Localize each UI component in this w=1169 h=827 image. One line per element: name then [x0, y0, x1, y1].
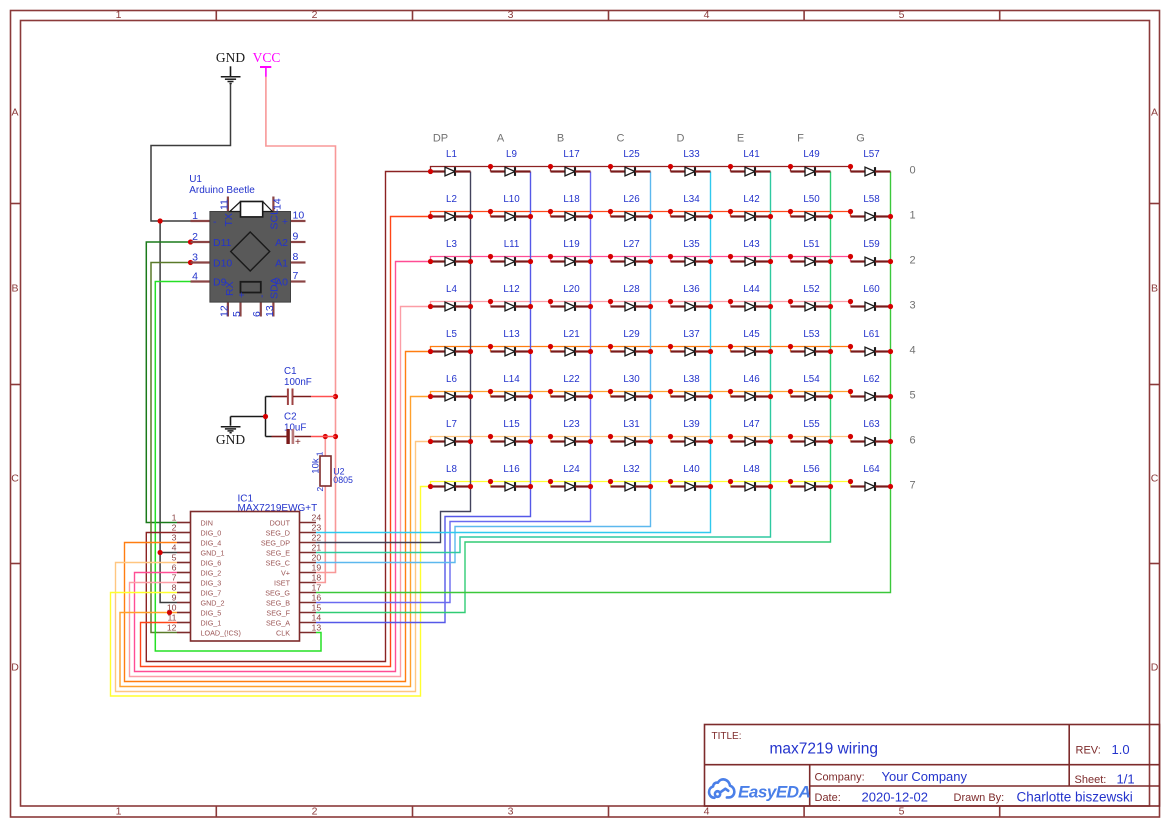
diode L20 [551, 284, 591, 311]
svg-text:LOAD_(!CS): LOAD_(!CS) [201, 628, 241, 637]
diode L23 [551, 419, 591, 446]
IC U1.. IC1 MAX7219EWG+T [167, 494, 322, 642]
svg-text:L22: L22 [563, 374, 579, 385]
svg-text:L7: L7 [446, 419, 457, 430]
IC1 pin 14 SEG_A [300, 622, 317, 624]
svg-text:1: 1 [172, 513, 177, 523]
svg-text:1: 1 [314, 451, 324, 456]
svg-text:L51: L51 [803, 239, 819, 250]
IC1 pin 13 CLK [300, 632, 317, 634]
svg-text:C: C [11, 473, 19, 485]
svg-text:L49: L49 [803, 149, 819, 160]
junction dot C2/U2 [323, 434, 328, 439]
svg-text:3: 3 [172, 533, 177, 543]
svg-text:4: 4 [704, 9, 710, 21]
svg-text:Charlotte biszewski: Charlotte biszewski [1017, 790, 1133, 805]
svg-text:DIN: DIN [201, 518, 213, 527]
diode L2 [431, 194, 471, 221]
svg-text:L34: L34 [683, 194, 700, 205]
wire row 6 net DIG (IC1 pin5 feed to matrix row 6) [116, 442, 431, 692]
svg-text:U1: U1 [189, 174, 202, 185]
svg-text:DIG_7: DIG_7 [201, 588, 222, 597]
IC1 pin 22 SEG_DP [300, 542, 317, 544]
svg-text:22: 22 [312, 533, 322, 543]
diode L12 [491, 284, 531, 311]
svg-text:TITLE:: TITLE: [712, 731, 742, 742]
svg-text:2: 2 [910, 255, 916, 267]
wire column D net SEG_D [316, 172, 711, 533]
svg-text:100nF: 100nF [284, 377, 312, 388]
IC1 pin 1 DIN [177, 522, 191, 524]
diode L33 [671, 149, 711, 176]
svg-text:17: 17 [312, 583, 322, 593]
svg-text:19: 19 [312, 563, 322, 573]
svg-text:3: 3 [508, 806, 514, 818]
IC1 pin 24 DOUT [300, 522, 317, 524]
svg-text:DIG_0: DIG_0 [201, 528, 222, 537]
power flag GND (top) [216, 50, 245, 84]
diode L5 [431, 329, 471, 356]
svg-text:B: B [557, 133, 564, 145]
svg-text:Drawn By:: Drawn By: [954, 792, 1005, 804]
svg-text:5: 5 [231, 311, 243, 317]
svg-text:L9: L9 [506, 149, 517, 160]
svg-text:L24: L24 [563, 464, 580, 475]
svg-text:12: 12 [218, 305, 230, 317]
svg-text:7: 7 [293, 270, 299, 282]
svg-text:7: 7 [910, 480, 916, 492]
capacitor C2 10uF (polarized) [272, 412, 312, 449]
wire U2 pin1 to C2/VCC junction [324, 437, 326, 457]
svg-text:D: D [677, 133, 685, 145]
IC1 pin 7 DIG_3 [177, 582, 191, 584]
diode L31 [611, 419, 651, 446]
svg-text:L53: L53 [803, 329, 820, 340]
wire U2 pin2 to IC1 ISET pin18 [316, 486, 325, 583]
svg-text:4: 4 [910, 345, 916, 357]
diode L34 [671, 194, 711, 221]
svg-text:L26: L26 [623, 194, 640, 205]
diode L35 [671, 239, 711, 266]
svg-text:L21: L21 [563, 329, 579, 340]
svg-text:L38: L38 [683, 374, 700, 385]
junction dot GND capacitor branch [263, 414, 268, 419]
svg-text:L28: L28 [623, 284, 640, 295]
svg-text:5: 5 [899, 806, 905, 818]
IC1 pin 18 ISET [300, 582, 317, 584]
svg-text:SEG_B: SEG_B [266, 598, 290, 607]
svg-text:L39: L39 [683, 419, 699, 430]
diode L17 [551, 149, 591, 176]
svg-text:10: 10 [167, 603, 177, 613]
wire row 1 bus [431, 212, 851, 217]
svg-text:L13: L13 [503, 329, 520, 340]
IC1 pin 3 DIG_4 [177, 542, 191, 544]
svg-text:DIG_6: DIG_6 [201, 558, 222, 567]
svg-text:6: 6 [172, 563, 177, 573]
wire VCC net [266, 77, 336, 573]
svg-text:GND: GND [216, 432, 245, 447]
svg-text:10: 10 [293, 210, 305, 222]
svg-text:1: 1 [192, 210, 198, 222]
svg-text:L14: L14 [503, 374, 520, 385]
svg-text:6: 6 [910, 435, 916, 447]
svg-text:C: C [617, 133, 625, 145]
svg-text:L62: L62 [863, 374, 879, 385]
svg-text:L48: L48 [743, 464, 760, 475]
svg-text:C: C [1151, 473, 1159, 485]
diode L25 [611, 149, 651, 176]
svg-text:2: 2 [312, 806, 318, 818]
svg-text:Company:: Company: [815, 772, 865, 784]
wire row 6 bus [431, 437, 851, 442]
diode L47 [731, 419, 771, 446]
svg-text:20: 20 [312, 553, 322, 563]
wire net CLK (U1 D9 to IC1 pin13) [155, 282, 321, 652]
svg-text:SEG_E: SEG_E [266, 548, 290, 557]
svg-text:Arduino Beetle: Arduino Beetle [189, 185, 255, 196]
junction dot IC1 pin4 GND [158, 550, 163, 555]
diode L16 [491, 464, 531, 491]
svg-text:6: 6 [251, 311, 263, 317]
svg-text:L30: L30 [623, 374, 640, 385]
svg-text:L44: L44 [743, 284, 760, 295]
svg-text:L61: L61 [863, 329, 879, 340]
svg-text:L55: L55 [803, 419, 820, 430]
diode L59 [851, 239, 891, 266]
svg-text:L19: L19 [563, 239, 579, 250]
ground symbol (near C2) [216, 417, 245, 448]
IC1 pin 23 SEG_D [300, 532, 317, 534]
svg-text:L2: L2 [446, 194, 457, 205]
svg-text:E: E [737, 133, 744, 145]
diode L40 [671, 464, 711, 491]
svg-text:V+: V+ [281, 568, 290, 577]
diode L45 [731, 329, 771, 356]
junction dots: matrix anode taps [428, 164, 853, 489]
svg-text:L3: L3 [446, 239, 457, 250]
diode L63 [851, 419, 891, 446]
microcontroller U1 Arduino Beetle [189, 174, 305, 317]
diode L46 [731, 374, 771, 401]
svg-text:L37: L37 [683, 329, 699, 340]
IC1 pin 6 DIG_2 [177, 572, 191, 574]
svg-text:+: + [295, 437, 301, 448]
svg-text:2: 2 [312, 9, 318, 21]
diode L26 [611, 194, 651, 221]
svg-text:11: 11 [167, 613, 176, 623]
svg-text:4: 4 [704, 806, 710, 818]
diode L53 [791, 329, 831, 356]
IC1 pin 12 LOAD_(!CS) [177, 632, 191, 634]
svg-text:L35: L35 [683, 239, 700, 250]
wire column DP net SEG_DP [316, 172, 471, 543]
svg-text:CLK: CLK [276, 628, 290, 637]
title block [705, 725, 1160, 807]
svg-text:D11: D11 [213, 237, 232, 249]
diode L50 [791, 194, 831, 221]
svg-text:F: F [797, 133, 804, 145]
svg-text:L46: L46 [743, 374, 760, 385]
svg-text:+: + [282, 216, 288, 228]
diode L61 [851, 329, 891, 356]
svg-text:L58: L58 [863, 194, 880, 205]
power flag VCC [253, 50, 281, 77]
svg-text:L50: L50 [803, 194, 820, 205]
IC1 pin 11 DIG_1 [177, 622, 191, 624]
diode L41 [731, 149, 771, 176]
svg-text:L59: L59 [863, 239, 879, 250]
wire row 2 net DIG (IC1 pin6 feed to matrix row 2) [135, 262, 431, 672]
diode L38 [671, 374, 711, 401]
svg-text:L20: L20 [563, 284, 580, 295]
svg-text:+: + [236, 292, 248, 298]
diode L29 [611, 329, 651, 356]
svg-text:Your Company: Your Company [882, 769, 968, 784]
svg-text:L41: L41 [743, 149, 759, 160]
svg-text:24: 24 [312, 513, 322, 523]
svg-text:DIG_2: DIG_2 [201, 568, 222, 577]
junction dot U1 pin3 [188, 260, 193, 265]
IC1 pin 5 DIG_6 [177, 562, 191, 564]
svg-text:12: 12 [167, 623, 177, 633]
diode L42 [731, 194, 771, 221]
wire net LOAD/CS (U1 D10 to IC1 pin12) [151, 263, 191, 633]
svg-text:SEG_A: SEG_A [266, 618, 290, 627]
wire row 3 bus [431, 302, 851, 307]
svg-text:B: B [11, 283, 18, 295]
svg-text:D: D [1151, 662, 1159, 674]
diode L11 [491, 239, 531, 266]
svg-text:C1: C1 [284, 366, 297, 377]
svg-text:L54: L54 [803, 374, 820, 385]
svg-text:23: 23 [312, 523, 322, 533]
diode L48 [731, 464, 771, 491]
svg-text:5: 5 [172, 553, 177, 563]
svg-text:L32: L32 [623, 464, 639, 475]
svg-text:SDA: SDA [268, 277, 280, 299]
junction dot U1 pin1 GND branch [158, 218, 163, 223]
wire row 1 net DIG (IC1 pin11 feed to matrix row 1) [141, 217, 431, 667]
diode L60 [851, 284, 891, 311]
wire row 2 bus [431, 257, 851, 262]
svg-text:DP: DP [433, 133, 448, 145]
svg-text:L43: L43 [743, 239, 760, 250]
junction dot U1 pin2 [188, 239, 193, 244]
diode L39 [671, 419, 711, 446]
diode L7 [431, 419, 471, 446]
wire column G net SEG_G [316, 172, 891, 593]
svg-text:GND: GND [216, 50, 245, 65]
svg-text:L40: L40 [683, 464, 700, 475]
diode L22 [551, 374, 591, 401]
diode L8 [431, 464, 471, 491]
svg-text:L5: L5 [446, 329, 457, 340]
diode L18 [551, 194, 591, 221]
svg-text:SEG_D: SEG_D [266, 528, 290, 537]
svg-text:4: 4 [172, 543, 177, 553]
IC1 pin 15 SEG_F [300, 612, 317, 614]
svg-text:2: 2 [315, 487, 325, 492]
diode L36 [671, 284, 711, 311]
svg-text:DIG_3: DIG_3 [201, 578, 222, 587]
svg-text:max7219 wiring: max7219 wiring [770, 741, 879, 758]
svg-text:TX: TX [223, 213, 235, 226]
svg-text:0805: 0805 [333, 475, 353, 485]
svg-text:DOUT: DOUT [270, 518, 291, 527]
svg-text:L63: L63 [863, 419, 880, 430]
diode L10 [491, 194, 531, 221]
svg-text:14: 14 [271, 198, 283, 210]
junction dot IC1 pin10 [167, 610, 172, 615]
diode L28 [611, 284, 651, 311]
wire row 3 net DIG (IC1 pin7 feed to matrix row 3) [130, 307, 431, 677]
svg-text:A2: A2 [275, 237, 288, 249]
wire column E net SEG_E [316, 172, 771, 553]
diode L9 [491, 149, 531, 176]
svg-text:L42: L42 [743, 194, 759, 205]
IC1 pin 8 DIG_7 [177, 592, 191, 594]
svg-text:2020-12-02: 2020-12-02 [862, 790, 929, 805]
svg-text:16: 16 [312, 593, 322, 603]
svg-text:1: 1 [910, 210, 916, 222]
IC1 pin 10 DIG_5 [177, 612, 191, 614]
svg-text:D: D [11, 662, 19, 674]
svg-text:DIG_5: DIG_5 [201, 608, 222, 617]
svg-text:13: 13 [264, 305, 276, 317]
svg-text:7: 7 [172, 573, 177, 583]
diode L57 [851, 149, 891, 176]
svg-text:18: 18 [312, 573, 322, 583]
svg-text:A: A [497, 133, 505, 145]
svg-text:L1: L1 [446, 149, 457, 160]
svg-text:L8: L8 [446, 464, 457, 475]
wire row 7 bus [431, 482, 851, 487]
diode L54 [791, 374, 831, 401]
wire GND net (flag to U1 pin1 and IC1 GND pins) [151, 84, 231, 222]
wire column C net SEG_C [316, 172, 651, 563]
wire row 5 net DIG (IC1 pin10 feed to matrix row 5) [120, 397, 431, 687]
svg-text:9: 9 [293, 231, 299, 243]
wire column B net SEG_B [316, 172, 591, 603]
svg-text:1.0: 1.0 [1112, 742, 1130, 757]
diode L56 [791, 464, 831, 491]
svg-text:L11: L11 [504, 239, 520, 250]
svg-text:8: 8 [293, 251, 299, 263]
svg-text:SEG_DP: SEG_DP [261, 538, 290, 547]
svg-text:0: 0 [910, 165, 916, 177]
diode L55 [791, 419, 831, 446]
IC1 pin 9 GND_2 [177, 602, 191, 604]
diode L3 [431, 239, 471, 266]
diode L32 [611, 464, 651, 491]
svg-text:L4: L4 [446, 284, 457, 295]
IC1 pin 20 SEG_C [300, 562, 317, 564]
svg-text:L29: L29 [623, 329, 639, 340]
svg-text:L60: L60 [863, 284, 880, 295]
svg-text:L52: L52 [803, 284, 819, 295]
svg-text:DIG_1: DIG_1 [201, 618, 222, 627]
svg-text:3: 3 [910, 300, 916, 312]
svg-text:1/1: 1/1 [1117, 772, 1135, 787]
svg-text:SCL: SCL [268, 209, 280, 230]
svg-text:A1: A1 [275, 258, 288, 270]
svg-text:L45: L45 [743, 329, 760, 340]
wire column A net SEG_A [316, 172, 531, 623]
svg-text:A: A [1151, 107, 1158, 119]
diode L14 [491, 374, 531, 401]
diode L21 [551, 329, 591, 356]
svg-text:RX: RX [224, 281, 236, 296]
svg-text:GND_2: GND_2 [201, 598, 225, 607]
diode L51 [791, 239, 831, 266]
junction dot C1/VCC [333, 394, 338, 399]
EasyEDA logo [709, 779, 734, 797]
wire row 7 net DIG (IC1 pin8 feed to matrix row 7) [111, 487, 431, 697]
diode L30 [611, 374, 651, 401]
svg-text:8: 8 [172, 583, 177, 593]
svg-text:13: 13 [312, 623, 322, 633]
svg-text:L25: L25 [623, 149, 640, 160]
IC1 pin 21 SEG_E [300, 552, 317, 554]
wire row 5 bus [431, 392, 851, 397]
svg-text:DIG_4: DIG_4 [201, 538, 222, 547]
wire C1 to VCC [311, 396, 336, 398]
svg-text:2: 2 [172, 523, 177, 533]
svg-text:ISET: ISET [274, 578, 291, 587]
svg-text:-: - [256, 294, 268, 298]
svg-text:L18: L18 [563, 194, 580, 205]
diode L37 [671, 329, 711, 356]
svg-text:11: 11 [218, 199, 230, 210]
svg-text:L10: L10 [503, 194, 520, 205]
diode L43 [731, 239, 771, 266]
resistor U2 10k 0805 [311, 451, 353, 491]
IC1 pin 17 SEG_G [300, 592, 317, 594]
svg-text:4: 4 [192, 271, 198, 283]
svg-text:9: 9 [172, 593, 177, 603]
svg-text:EasyEDA: EasyEDA [738, 783, 811, 802]
diode L64 [851, 464, 891, 491]
diode L6 [431, 374, 471, 401]
svg-text:L6: L6 [446, 374, 457, 385]
svg-text:21: 21 [312, 543, 322, 553]
svg-text:3: 3 [192, 252, 198, 264]
svg-text:A: A [11, 107, 18, 119]
svg-text:L64: L64 [863, 464, 880, 475]
diode L19 [551, 239, 591, 266]
svg-text:GND_1: GND_1 [201, 548, 225, 557]
IC1 pin 4 GND_1 [177, 552, 191, 554]
svg-text:Sheet:: Sheet: [1075, 774, 1107, 786]
svg-text:L33: L33 [683, 149, 700, 160]
diode L13 [491, 329, 531, 356]
IC1 pin 2 DIG_0 [177, 532, 191, 534]
diode L27 [611, 239, 651, 266]
svg-text:L12: L12 [503, 284, 519, 295]
diode L58 [851, 194, 891, 221]
diode L62 [851, 374, 891, 401]
diode L44 [731, 284, 771, 311]
diode L52 [791, 284, 831, 311]
svg-text:L23: L23 [563, 419, 580, 430]
IC1 pin 19 V+ [300, 572, 317, 574]
svg-text:Date:: Date: [815, 792, 841, 804]
svg-text:C2: C2 [284, 412, 297, 423]
diode L49 [791, 149, 831, 176]
svg-text:L36: L36 [683, 284, 700, 295]
wire net DIN (U1 D11 to IC1 pin1) [146, 242, 190, 523]
